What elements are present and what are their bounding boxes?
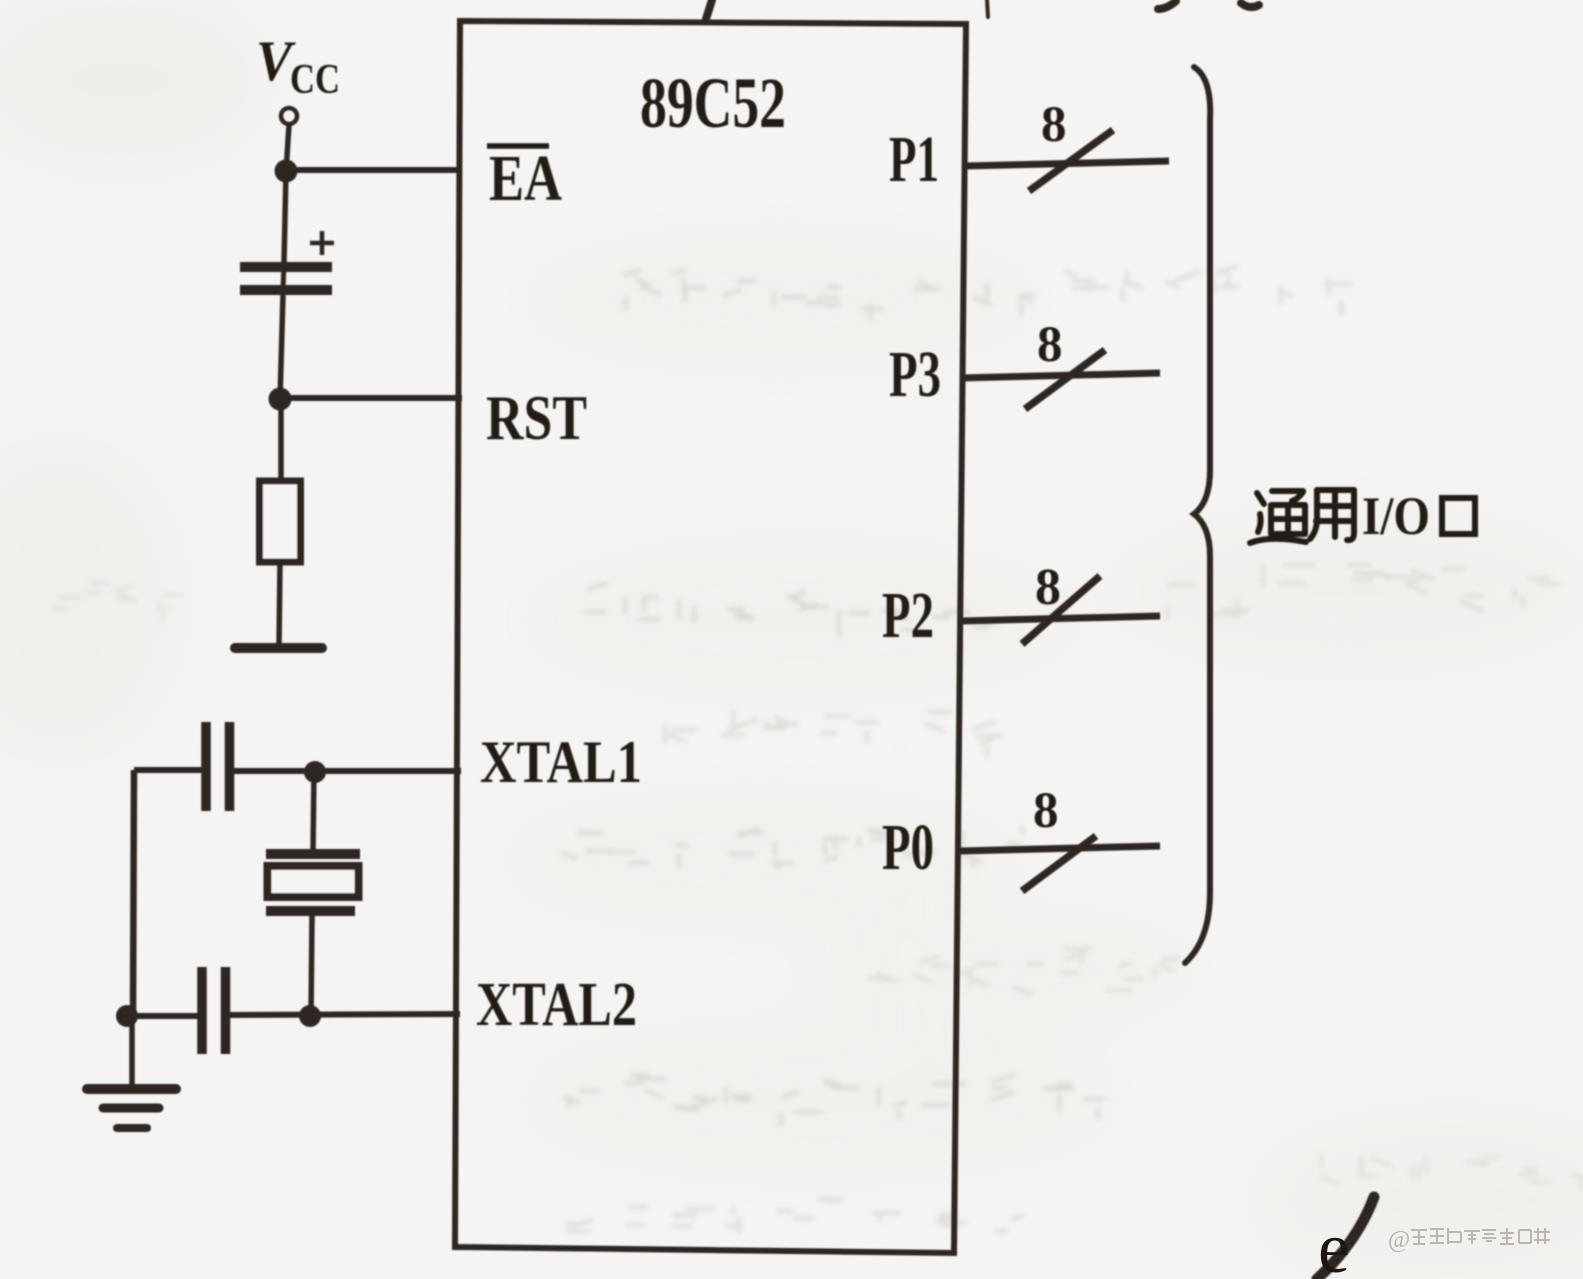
ground G2 bar 3 bbox=[117, 1124, 147, 1132]
svg-text:8: 8 bbox=[1041, 97, 1067, 153]
wire bus P2 bbox=[961, 616, 1160, 621]
wire capacitor C2 to pin XTAL1 bbox=[232, 768, 461, 774]
svg-text:P0: P0 bbox=[882, 811, 934, 884]
capacitor C3 left plate bbox=[197, 967, 207, 1054]
node B junction dot bbox=[269, 388, 292, 411]
wire VCC terminal to node A bbox=[286, 125, 289, 172]
svg-text:XTAL1: XTAL1 bbox=[480, 729, 642, 795]
wire capacitor C3 to pin XTAL2 bbox=[228, 1014, 460, 1015]
svg-text:8: 8 bbox=[1033, 783, 1059, 839]
power terminal VCC bbox=[281, 108, 297, 124]
ground G2 bar 1 bbox=[87, 1084, 176, 1094]
svg-text:RST: RST bbox=[486, 383, 587, 453]
bus slash P1 bbox=[1029, 130, 1113, 191]
wire node B to resistor R1 bbox=[278, 399, 284, 483]
wire bus P3 bbox=[962, 373, 1160, 378]
capacitor C1 bottom plate bbox=[240, 285, 332, 295]
wire capacitor C1 to node B bbox=[280, 295, 283, 400]
svg-text:8: 8 bbox=[1037, 317, 1063, 373]
IC U1 89C52 body bbox=[455, 21, 966, 1253]
bus slash P2 bbox=[1022, 576, 1100, 644]
svg-text:P1: P1 bbox=[889, 123, 939, 196]
svg-text:e: e bbox=[1318, 1208, 1350, 1279]
capacitor C1 polarity mark + bbox=[310, 231, 334, 255]
svg-text:@: @ bbox=[1388, 1227, 1410, 1253]
bus slash P3 bbox=[1025, 350, 1105, 409]
label 通用I/O口 glyph 口 bbox=[1442, 498, 1475, 534]
wire bus P1 bbox=[963, 161, 1169, 166]
wire node B to pin RST bbox=[280, 395, 462, 401]
crystal Y1 bottom plate bbox=[266, 906, 355, 916]
wire resistor R1 to ground bbox=[279, 562, 280, 646]
svg-text:P2: P2 bbox=[882, 579, 934, 652]
wire XTAL2 left segment bbox=[127, 1013, 199, 1019]
resistor R1 bbox=[260, 481, 301, 562]
crystal Y1 top plate bbox=[266, 849, 360, 859]
wire bus P0 bbox=[959, 846, 1160, 851]
brace grouping I/O ports bbox=[1185, 67, 1210, 963]
wire node A to pin EA bbox=[286, 167, 462, 173]
svg-text:XTAL2: XTAL2 bbox=[476, 971, 637, 1039]
wire node A to capacitor C1 bbox=[284, 171, 286, 263]
svg-text:CC: CC bbox=[290, 57, 340, 103]
label 通用I/O口 glyph 通 bbox=[1250, 491, 1306, 543]
capacitor C3 right plate bbox=[221, 967, 231, 1054]
wire left rail (C2 to C3) bbox=[133, 770, 134, 1017]
ground bar below R1 bbox=[235, 643, 322, 653]
EA overline bbox=[487, 143, 549, 149]
crystal Y1 body bbox=[268, 866, 359, 897]
capacitor C2 right plate bbox=[225, 722, 235, 811]
wire XTAL1 left segment bbox=[134, 767, 203, 773]
node A junction dot bbox=[275, 160, 298, 183]
wire node E to ground G2 bbox=[129, 1016, 135, 1086]
capacitor C1 (electrolytic) top plate bbox=[240, 262, 332, 272]
svg-text:I/O: I/O bbox=[1362, 486, 1430, 546]
capacitor C2 left plate bbox=[201, 722, 211, 811]
node E junction dot (ground corner) bbox=[116, 1005, 138, 1027]
node D junction dot (XTAL2 net) bbox=[299, 1005, 321, 1027]
svg-text:P3: P3 bbox=[889, 338, 941, 411]
svg-text:EA: EA bbox=[489, 142, 562, 215]
label 通用I/O口 glyph 用 bbox=[1310, 490, 1354, 540]
svg-text:8: 8 bbox=[1035, 559, 1061, 616]
svg-text:89C52: 89C52 bbox=[640, 63, 786, 143]
wire crystal Y1 to node D bbox=[311, 916, 312, 1017]
ground G2 bar 2 bbox=[103, 1104, 159, 1113]
wire node C to crystal Y1 bbox=[313, 772, 314, 852]
bus slash P0 bbox=[1022, 836, 1096, 891]
wire between C1 plates bbox=[283, 263, 284, 290]
node C junction dot (XTAL1 net) bbox=[304, 761, 326, 783]
